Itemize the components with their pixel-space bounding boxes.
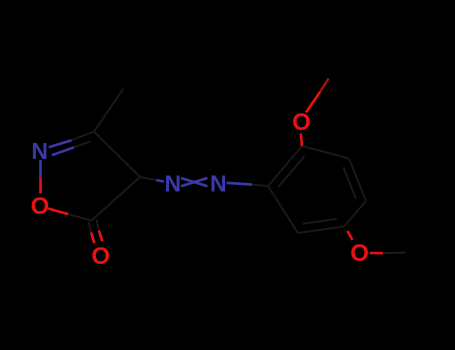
bond O1-C5 gray half xyxy=(68,214,92,220)
bond N1-O1 blue half xyxy=(39,160,42,178)
bond N3=N4 crossed line A xyxy=(181,178,208,186)
svg-text:O: O xyxy=(91,243,110,270)
bond N4-C1aryl gray half xyxy=(252,185,268,186)
atom label N1 isoxazole xyxy=(31,138,48,164)
atom label O1 isoxazole xyxy=(31,193,50,220)
bond N1=C3 inner line gray half xyxy=(74,142,90,148)
benzene bond C1=C2 main xyxy=(268,146,302,186)
bond O1-C5 red half xyxy=(48,209,68,215)
benzene bond C3=C4 inner xyxy=(343,167,356,198)
svg-text:N: N xyxy=(164,171,181,197)
bond Otop-CH3 red half xyxy=(306,92,320,113)
bond C2-O(top methoxy) red stub xyxy=(301,134,302,147)
bond C4-N3(azo) gray half xyxy=(140,177,156,180)
bond N1=C3 main line blue half xyxy=(49,140,72,147)
benzene bond C3=C4 main xyxy=(349,159,366,202)
bond C5aryl-O(bottom methoxy) red stub xyxy=(348,231,353,240)
svg-text:N: N xyxy=(31,138,48,164)
bond N1-O1 red half xyxy=(39,178,42,194)
benzene bond C2-C3 xyxy=(302,146,349,159)
atom label N4 azo xyxy=(210,171,227,197)
bond N1=C3 inner line blue half xyxy=(52,147,74,155)
bond N1=C3 main line gray half xyxy=(72,132,94,141)
atom label O bottom methoxy xyxy=(350,240,369,267)
atom label N3 azo xyxy=(164,171,181,197)
atom label O carbonyl xyxy=(91,243,110,270)
bond N4-C1aryl blue half xyxy=(227,183,253,185)
bond C4-C5 xyxy=(92,177,141,221)
bond C5=O carbonyl right line red half xyxy=(99,231,102,242)
bond N3=N4 crossed line B xyxy=(181,178,208,186)
svg-text:O: O xyxy=(350,240,369,267)
bond C3-CH3 methyl xyxy=(94,89,124,132)
svg-text:O: O xyxy=(292,109,311,136)
bond Otop-CH3 dark outer half xyxy=(320,79,329,93)
bond C4-N3(azo) blue half xyxy=(156,180,164,182)
benzene bond C5=C6 main xyxy=(298,227,344,234)
svg-text:O: O xyxy=(31,193,50,220)
benzene bond C4-C5 xyxy=(344,201,366,227)
bond Obot-CH3 red half xyxy=(370,252,383,255)
atom label O top methoxy xyxy=(292,109,311,136)
benzene bond C5=C6 inner xyxy=(303,219,337,224)
bond C5=O carbonyl left line red half xyxy=(91,233,94,244)
svg-text:N: N xyxy=(210,171,227,197)
bond C5=O carbonyl right line gray half xyxy=(97,220,99,231)
benzene bond C6-C1 xyxy=(268,186,298,233)
benzene bond C1=C2 inner xyxy=(278,156,304,187)
bond Obot-CH3 gray half xyxy=(383,252,406,255)
bond C5=O carbonyl left line gray half xyxy=(89,222,91,233)
bond C3-C4 xyxy=(94,132,140,178)
